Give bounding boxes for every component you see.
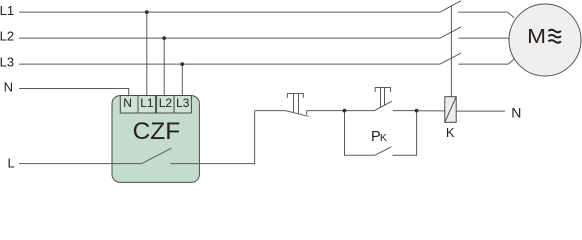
svg-text:N: N	[511, 104, 521, 120]
svg-text:L2: L2	[159, 96, 173, 110]
svg-text:N: N	[123, 96, 132, 110]
svg-text:L3: L3	[0, 55, 14, 70]
svg-text:L2: L2	[0, 29, 14, 44]
svg-text:K: K	[446, 125, 455, 140]
svg-text:L: L	[8, 155, 15, 170]
svg-text:L1: L1	[140, 96, 154, 110]
svg-text:L3: L3	[176, 96, 190, 110]
svg-text:K: K	[380, 132, 387, 144]
svg-text:M: M	[527, 24, 546, 48]
svg-text:L1: L1	[0, 3, 14, 18]
svg-text:CZF: CZF	[133, 118, 181, 145]
svg-text:N: N	[4, 80, 13, 95]
